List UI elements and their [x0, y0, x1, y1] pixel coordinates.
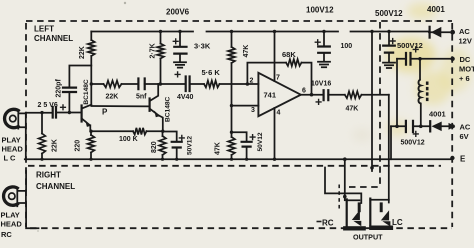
small dashed box bottom segment — [349, 186, 380, 188]
resistor 100K — [133, 128, 147, 135]
node 50V12 ground — [175, 158, 178, 161]
svg-text:500V12: 500V12 — [397, 41, 423, 50]
node Q1 emitter — [89, 130, 92, 133]
resistor 5.6K — [204, 81, 220, 88]
svg-text:5nf: 5nf — [136, 94, 147, 101]
wire 47K lower to ground — [231, 132, 233, 159]
svg-text:50V12: 50V12 — [187, 136, 194, 155]
svg-text:741: 741 — [264, 91, 277, 100]
svg-text:+ 6: + 6 — [459, 74, 470, 83]
wire 4V40 to 5.6K — [190, 83, 204, 85]
svg-text:22K: 22K — [52, 139, 59, 152]
wire play head LC bottom to ground — [25, 128, 27, 160]
resistor 2.7K — [157, 44, 164, 59]
wire 22K h line — [91, 83, 137, 85]
diode 4001 rectifier AC6V — [430, 121, 442, 131]
plus mark 10V16 — [316, 100, 321, 105]
svg-text:50V12: 50V12 — [257, 132, 264, 151]
node Q2 collector — [159, 82, 163, 86]
wire input node down — [41, 113, 43, 160]
svg-text:47K: 47K — [346, 106, 359, 113]
node pin3 tap — [230, 104, 233, 107]
svg-text:220pf: 220pf — [56, 79, 63, 98]
node motor tap — [418, 57, 422, 61]
play head LC — [5, 109, 26, 128]
wire play head RC top — [25, 171, 27, 191]
resistor 22K interstage — [104, 81, 122, 88]
paper speck — [124, 2, 126, 4]
svg-text:CHANNEL: CHANNEL — [34, 34, 73, 43]
node RC shell — [343, 195, 347, 199]
wire Q1 collector to Q2 base — [91, 105, 149, 107]
dashed lead to RC jack — [338, 185, 340, 210]
svg-text:22K: 22K — [106, 94, 119, 101]
node 220pf base — [68, 111, 71, 114]
svg-text:4V40: 4V40 — [177, 94, 193, 101]
svg-text:4001: 4001 — [427, 5, 445, 14]
wire 47K bias chain — [231, 32, 233, 133]
capacitor 4V40 — [186, 77, 190, 92]
node feedback tap pin2 — [246, 82, 250, 86]
wire Q1 collector vertical — [90, 56, 92, 105]
resistor 22K input — [39, 134, 46, 154]
svg-text:5·6 K: 5·6 K — [202, 68, 221, 77]
wire play head LC to input cap — [26, 112, 52, 114]
svg-text:HEAD: HEAD — [1, 220, 23, 229]
transistor Q1 BC148C — [82, 105, 92, 132]
terminal DC MOT — [450, 57, 454, 61]
svg-text:2·7K: 2·7K — [150, 43, 157, 58]
capacitor 10V16 — [324, 90, 329, 100]
terminal AC 12V — [450, 30, 455, 35]
svg-text:220: 220 — [75, 140, 82, 152]
right channel mirror dashed line vertical — [379, 22, 381, 187]
svg-text:MOT: MOT — [459, 65, 474, 74]
wire 47K to LC jack feed — [362, 94, 389, 96]
resistor 68K feedback — [286, 59, 302, 66]
diode 4001 rectifier AC12V — [429, 27, 450, 38]
node coil bottom — [419, 125, 423, 129]
node Q1 collector / 22K h — [90, 82, 93, 85]
motor choke coil — [418, 59, 428, 127]
wire DC motor line — [397, 58, 451, 60]
wire play head RC bottom to box corner — [26, 203, 38, 228]
node 47K ground — [230, 158, 233, 161]
svg-text:68K: 68K — [282, 50, 296, 59]
node pin4 ground — [273, 158, 276, 161]
plus mark 2 5 V6 — [61, 105, 66, 110]
svg-text:200V6: 200V6 — [166, 8, 190, 17]
wire 10V16 to 47K output — [328, 94, 345, 96]
svg-text:PLAY: PLAY — [1, 211, 20, 220]
wire 22K load to rail — [90, 32, 92, 41]
plus mark 500V12 AC6V — [413, 132, 418, 137]
node Q2 emitter — [161, 130, 164, 133]
tick before RC label — [317, 221, 322, 223]
capacitor 2 5 V6 — [53, 107, 56, 118]
wire feedback riser — [247, 63, 286, 84]
node rail 100V12 — [322, 30, 325, 33]
wire op-amp output — [301, 94, 323, 96]
svg-text:2 5 V6: 2 5 V6 — [38, 102, 58, 109]
capacitor 5nf — [138, 79, 144, 90]
svg-text:22K: 22K — [79, 46, 86, 59]
node input/22K — [40, 111, 43, 114]
svg-text:RC: RC — [1, 230, 12, 239]
node output feedback — [310, 93, 314, 97]
svg-text:10V16: 10V16 — [311, 81, 331, 88]
resistor 22K collector load — [88, 40, 95, 56]
resistor 47K output — [345, 91, 362, 98]
capacitor 50V12 emitter bypass — [163, 132, 184, 160]
svg-text:47K: 47K — [243, 45, 250, 58]
capacitor 50V12 pin3 bypass — [232, 132, 256, 159]
node rail 200V6 — [178, 30, 181, 33]
svg-text:47K: 47K — [215, 142, 222, 155]
svg-text:2: 2 — [250, 78, 254, 85]
node 22K input ground — [40, 158, 43, 161]
outer dashed box right edge — [451, 23, 453, 227]
wire emitter to 820 to ground — [162, 131, 164, 159]
resistor 220 emitter — [88, 135, 95, 153]
op-amp U1 741 — [258, 73, 300, 116]
svg-text:HEAD: HEAD — [2, 145, 24, 154]
svg-text:LC: LC — [392, 218, 403, 227]
left channel dashed box left edge — [25, 23, 27, 227]
node rail 2.7K — [159, 30, 162, 33]
svg-text:4001: 4001 — [429, 110, 446, 119]
wire feedback to output — [302, 63, 312, 95]
svg-text:820: 820 — [151, 141, 158, 153]
wire supply down to right channel — [371, 32, 373, 172]
svg-text:E: E — [460, 155, 466, 164]
svg-text:3: 3 — [251, 107, 255, 114]
svg-text:RC: RC — [322, 219, 334, 228]
capacitor 220pf — [63, 88, 76, 92]
wire 220pf feedback to Q1 collector — [69, 66, 91, 88]
wire pin3 — [232, 105, 259, 107]
node motor cap riser — [395, 125, 399, 129]
node rail 47K — [230, 30, 233, 33]
resistor 47K upper bias — [228, 47, 235, 63]
svg-text:BC148C: BC148C — [165, 96, 172, 122]
svg-text:RIGHT: RIGHT — [36, 171, 61, 180]
wire 220pf to base line — [68, 93, 70, 113]
wire AC6V line — [391, 125, 450, 127]
svg-text:12V: 12V — [459, 37, 472, 46]
ground 500V12 — [383, 63, 395, 68]
wire 2.7K rail to collector node — [160, 32, 162, 85]
node 50V12 pin3 ground — [245, 158, 248, 161]
wire LC jack feed vertical — [388, 95, 390, 203]
capacitor 500V12 AC6V — [406, 121, 413, 132]
phono jack RC — [343, 199, 366, 230]
svg-text:6V: 6V — [460, 132, 469, 141]
wire motor cap riser — [396, 59, 398, 127]
plus mark 4V40 — [175, 72, 180, 77]
phono jack LC — [369, 199, 393, 230]
node rail supply-down — [370, 30, 373, 33]
wire 5nf to Q2 collector node — [145, 83, 185, 85]
svg-text:OUTPUT: OUTPUT — [353, 233, 383, 242]
node ground RC shell — [343, 157, 347, 161]
wire pin 7 to rail — [274, 32, 276, 82]
ground rail — [25, 158, 453, 160]
svg-text:L C: L C — [4, 154, 17, 163]
svg-text:AC: AC — [460, 123, 471, 132]
wire ground to RC jack shell — [344, 159, 346, 200]
svg-text:500V12: 500V12 — [375, 9, 403, 18]
wire 5.6K to op-amp pin 2 — [220, 83, 259, 85]
svg-text:AC: AC — [459, 27, 470, 36]
wire AC6V left leg to ground — [390, 126, 392, 159]
wire emitter to 220 and ground — [90, 131, 92, 159]
ground 200V6 — [174, 62, 186, 67]
left channel dashed box top edge — [26, 20, 452, 22]
resistor 47K lower bias — [228, 137, 235, 155]
svg-text:CHANNEL: CHANNEL — [36, 182, 75, 191]
svg-text:6: 6 — [302, 88, 306, 95]
outer dashed box bottom edge — [30, 227, 452, 229]
plus mark 500V12 motor — [413, 47, 418, 52]
capacitor 100V12 — [315, 32, 330, 62]
svg-text:P: P — [102, 108, 108, 117]
capacitor 500V12 motor series — [406, 53, 411, 65]
svg-text:3·3K: 3·3K — [194, 42, 211, 51]
terminal AC 6V — [449, 123, 456, 130]
node lower bias — [230, 131, 233, 134]
+12V supply rail — [91, 31, 429, 33]
capacitor 200V6 — [173, 32, 186, 63]
svg-text:500V12: 500V12 — [401, 140, 425, 147]
wire 100K feedback line — [91, 130, 163, 132]
node 220 ground — [89, 158, 92, 161]
svg-text:100V12: 100V12 — [306, 6, 334, 15]
capacitor 500V12 main filter — [383, 32, 395, 63]
wire cap to Q1 base — [56, 112, 81, 114]
transistor Q2 BC148C — [150, 84, 163, 131]
svg-text:LEFT: LEFT — [34, 25, 54, 34]
svg-text:DC: DC — [460, 55, 471, 64]
svg-text:BC148C: BC148C — [83, 79, 90, 105]
node supply right channel — [370, 166, 374, 170]
ground 100V12 — [318, 62, 330, 67]
svg-text:PLAY: PLAY — [2, 136, 21, 145]
node rail pin7 — [273, 30, 276, 33]
play head RC — [4, 187, 26, 206]
resistor 820 — [159, 136, 166, 155]
wire pin 4 to ground — [274, 108, 276, 159]
node rail 500V12 — [387, 30, 390, 33]
svg-text:100 K: 100 K — [119, 136, 138, 143]
channel divider dashed line — [28, 165, 441, 167]
node 820 ground — [161, 158, 164, 161]
svg-text:100: 100 — [341, 43, 353, 50]
wire RC output from right channel — [325, 168, 361, 204]
terminal E — [450, 156, 454, 160]
svg-text:4: 4 — [277, 110, 281, 117]
svg-text:7: 7 — [276, 75, 280, 82]
